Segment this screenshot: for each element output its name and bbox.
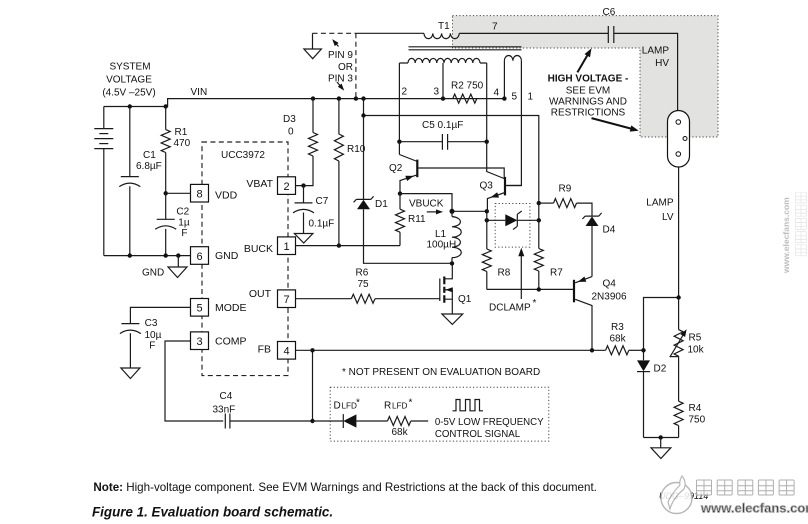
svg-text:Note: High-voltage component.: Note: High-voltage component. See EVM Wa… bbox=[93, 481, 597, 494]
diode D2 bbox=[637, 350, 667, 437]
pin 5 MODE bbox=[191, 299, 247, 317]
svg-text:4: 4 bbox=[283, 346, 289, 358]
svg-text:3: 3 bbox=[434, 87, 440, 98]
svg-text:R1: R1 bbox=[175, 127, 188, 138]
capacitor C3 bbox=[120, 318, 162, 368]
svg-text:HIGH VOLTAGE -: HIGH VOLTAGE - bbox=[548, 74, 629, 85]
svg-text:*: * bbox=[533, 298, 537, 309]
svg-text:Q4: Q4 bbox=[603, 278, 617, 289]
transformer T1 secondary winding (2-3-4) bbox=[399, 58, 486, 63]
svg-text:C6: C6 bbox=[603, 7, 616, 18]
watermark logo (bottom right) bbox=[646, 468, 808, 524]
pin 8 VDD bbox=[191, 184, 238, 202]
svg-text:1µ: 1µ bbox=[178, 217, 190, 228]
svg-text:R9: R9 bbox=[559, 184, 572, 195]
svg-text:LFD: LFD bbox=[392, 402, 408, 411]
wire: VIN branch to R9/R7 column bbox=[361, 113, 541, 248]
node VIN label bbox=[191, 87, 208, 98]
svg-text:WARNINGS AND: WARNINGS AND bbox=[549, 97, 627, 108]
transistor Q4 (PNP 2N3906) bbox=[574, 277, 627, 351]
resistor R6 bbox=[296, 268, 440, 304]
low-frequency dimming dotted box bbox=[330, 387, 549, 441]
svg-text:7: 7 bbox=[283, 294, 289, 306]
wire: Q2 base to Q3 bbox=[418, 168, 504, 178]
svg-text:D4: D4 bbox=[603, 225, 616, 236]
wire: C6 to lamp HV bbox=[614, 33, 678, 110]
wire: tap 4 column bbox=[487, 63, 500, 142]
capacitor C2 bbox=[155, 191, 190, 256]
label LAMP HV bbox=[642, 46, 670, 70]
svg-text:L1: L1 bbox=[435, 229, 447, 240]
resistor R4 bbox=[674, 356, 706, 437]
arrow to line 7 bbox=[577, 48, 591, 72]
svg-text:D3: D3 bbox=[283, 114, 296, 125]
wire: tap 3 to rail bbox=[434, 63, 444, 99]
capacitor C4 bbox=[213, 391, 236, 429]
svg-text:6: 6 bbox=[196, 251, 202, 263]
svg-text:470: 470 bbox=[174, 138, 191, 149]
pin 3 COMP bbox=[191, 332, 247, 350]
svg-text:D: D bbox=[334, 401, 341, 412]
arrow to lamp bbox=[592, 118, 639, 132]
transformer T1 primary winding bbox=[424, 21, 459, 39]
wire: bottom node bbox=[644, 435, 679, 439]
svg-text:VDD: VDD bbox=[215, 189, 238, 201]
capacitor C7 bbox=[293, 186, 334, 234]
wire: line 7 from primary to C6 bbox=[459, 22, 608, 34]
svg-text:D2: D2 bbox=[654, 364, 667, 375]
wire: tap 2 column bbox=[399, 63, 407, 142]
svg-text:PIN 3: PIN 3 bbox=[328, 74, 353, 85]
svg-text:T1: T1 bbox=[438, 21, 450, 32]
resistor R10 bbox=[334, 99, 365, 246]
capacitor C5 bbox=[397, 120, 489, 150]
pin 7 OUT bbox=[249, 288, 296, 307]
svg-text:Q1: Q1 bbox=[458, 294, 472, 305]
svg-text:CONTROL SIGNAL: CONTROL SIGNAL bbox=[435, 429, 521, 440]
svg-text:33nF: 33nF bbox=[213, 405, 236, 416]
transistor Q3 (NPN) bbox=[480, 142, 522, 212]
pin 1 BUCK bbox=[244, 237, 296, 255]
svg-text:OR: OR bbox=[338, 62, 353, 73]
svg-text:OUT: OUT bbox=[249, 288, 272, 300]
wire: Q2 emitter to VBUCK node bbox=[400, 194, 489, 214]
UDG number bbox=[659, 491, 708, 501]
diode DLFD bbox=[313, 398, 361, 429]
label: not present on evaluation board bbox=[342, 367, 540, 378]
wire: to transformer primary bbox=[356, 32, 424, 34]
transistor Q1 (NMOS) bbox=[440, 263, 472, 314]
ground (C7) bbox=[294, 234, 313, 244]
svg-text:68k: 68k bbox=[610, 334, 627, 345]
svg-text:0: 0 bbox=[288, 127, 294, 138]
resistor R5 (variable) bbox=[670, 298, 705, 358]
inductor L1 bbox=[427, 211, 462, 263]
svg-text:F: F bbox=[149, 341, 155, 352]
svg-text:C1: C1 bbox=[143, 150, 156, 161]
svg-text:R7: R7 bbox=[550, 268, 563, 279]
capacitor C6 bbox=[603, 7, 616, 43]
resistor D3 (0 ohm) bbox=[283, 99, 318, 156]
resistor R11 bbox=[396, 191, 427, 245]
wire pin8 to C2/R1 node bbox=[166, 192, 191, 194]
svg-text:R11: R11 bbox=[408, 214, 426, 225]
svg-text:1: 1 bbox=[283, 241, 289, 253]
transformer T1 aux winding (5-1) bbox=[504, 55, 521, 60]
wire: winding 1 end down to Q3 collector bbox=[507, 61, 534, 186]
svg-text:COMP: COMP bbox=[215, 335, 247, 347]
transformer T1 core bbox=[409, 47, 522, 50]
svg-text:D1: D1 bbox=[375, 199, 388, 210]
svg-text:10k: 10k bbox=[688, 344, 705, 355]
svg-text:C2: C2 bbox=[176, 207, 189, 218]
svg-text:R2 750: R2 750 bbox=[451, 81, 484, 92]
svg-text:0.1µF: 0.1µF bbox=[309, 219, 335, 230]
diode D4 (zener) bbox=[582, 213, 615, 277]
label DCLAMP with arrow bbox=[489, 248, 537, 314]
pin 2 VBAT bbox=[246, 177, 295, 195]
wire: lamp LV down bbox=[678, 167, 680, 298]
svg-text:750: 750 bbox=[689, 414, 706, 425]
diode DCLAMP (zener, optional) bbox=[485, 204, 539, 248]
svg-text:R: R bbox=[384, 401, 391, 412]
svg-text:2: 2 bbox=[283, 181, 289, 193]
control signal waveform bbox=[453, 400, 484, 411]
svg-text:VBAT: VBAT bbox=[246, 178, 273, 190]
svg-text:UCC3972: UCC3972 bbox=[221, 150, 265, 161]
resistor R3 bbox=[606, 322, 644, 355]
wire: MODE pin 5 to C3 bbox=[130, 307, 190, 323]
svg-text:MODE: MODE bbox=[215, 302, 247, 314]
svg-text:LAMP: LAMP bbox=[646, 198, 674, 209]
svg-text:100µH: 100µH bbox=[427, 240, 457, 251]
ground (Q1 source) bbox=[442, 314, 463, 324]
resistor R7 bbox=[534, 249, 563, 290]
svg-text:4: 4 bbox=[494, 88, 500, 99]
high-voltage shaded region bbox=[453, 16, 719, 137]
label: SYSTEM VOLTAGE (4.5V -25V) bbox=[102, 62, 155, 99]
svg-text:3: 3 bbox=[196, 336, 202, 348]
svg-text:R5: R5 bbox=[689, 333, 702, 344]
svg-text:VBUCK: VBUCK bbox=[409, 198, 444, 209]
svg-text:RESTRICTIONS: RESTRICTIONS bbox=[551, 108, 626, 119]
label HIGH VOLTAGE warning bbox=[548, 74, 629, 119]
svg-text:SYSTEM: SYSTEM bbox=[109, 62, 150, 73]
svg-text:Q3: Q3 bbox=[480, 180, 494, 191]
resistor R2 bbox=[451, 81, 484, 104]
svg-text:1: 1 bbox=[528, 92, 534, 103]
ground (bottom right) bbox=[651, 438, 671, 459]
resistor R9 bbox=[539, 184, 592, 217]
svg-text:7: 7 bbox=[492, 22, 498, 33]
svg-text:2: 2 bbox=[402, 87, 408, 98]
svg-text:75: 75 bbox=[358, 279, 370, 290]
pin 4 FB bbox=[258, 342, 296, 360]
transistor Q2 (PNP) bbox=[389, 142, 417, 194]
svg-text:UDG–99114: UDG–99114 bbox=[659, 491, 708, 501]
wire: winding 5 end to rail bbox=[504, 61, 517, 103]
svg-text:GND: GND bbox=[142, 267, 164, 278]
battery (system voltage source) bbox=[94, 107, 113, 256]
pin 6 GND bbox=[191, 247, 239, 265]
svg-text:68k: 68k bbox=[392, 427, 409, 438]
svg-text:10µ: 10µ bbox=[145, 330, 162, 341]
svg-text:8: 8 bbox=[196, 189, 202, 201]
wire: BUCK pin 1 to R10/R11 bbox=[296, 243, 401, 247]
svg-text:2N3906: 2N3906 bbox=[592, 291, 627, 302]
svg-text:5: 5 bbox=[512, 92, 518, 103]
svg-text:Figure 1. Evaluation board sch: Figure 1. Evaluation board schematic. bbox=[92, 505, 333, 520]
figure caption bbox=[92, 505, 333, 520]
lamp (CCFL tube) bbox=[668, 111, 690, 168]
wire: dashed pin9/pin3 option net bbox=[313, 33, 356, 98]
label LAMP LV bbox=[646, 198, 674, 224]
svg-text:* NOT PRESENT ON EVALUATION BO: * NOT PRESENT ON EVALUATION BOARD bbox=[342, 367, 540, 378]
ground (pin9 option) bbox=[304, 49, 322, 59]
wire: ground rail (left) bbox=[104, 253, 191, 257]
label PIN 9 OR PIN 3 with arrows bbox=[328, 39, 353, 91]
svg-text:FB: FB bbox=[258, 343, 271, 355]
svg-text:LV: LV bbox=[662, 212, 674, 223]
svg-text:GND: GND bbox=[215, 250, 239, 262]
wire: C4 to FB node bbox=[230, 348, 315, 423]
svg-text:C3: C3 bbox=[145, 318, 158, 329]
svg-text:HV: HV bbox=[655, 58, 669, 69]
resistor R1 bbox=[161, 107, 190, 194]
svg-text:5: 5 bbox=[196, 303, 202, 315]
resistor R8 bbox=[482, 211, 510, 289]
svg-text:DCLAMP: DCLAMP bbox=[489, 303, 531, 314]
svg-text:R3: R3 bbox=[611, 322, 624, 333]
wire: VBAT pin 2 to D3 column bbox=[296, 156, 314, 188]
wire: VIN rail bbox=[104, 96, 507, 108]
resistor RLFD bbox=[356, 398, 428, 439]
svg-text:R6: R6 bbox=[356, 268, 369, 279]
wire: COMP pin 3 to C4 bbox=[165, 341, 223, 421]
svg-text:VIN: VIN bbox=[191, 87, 208, 98]
diode D1 (zener) bbox=[354, 99, 452, 264]
ground GND (left) bbox=[142, 256, 187, 279]
svg-text:SEE EVM: SEE EVM bbox=[566, 86, 610, 97]
capacitor C1 bbox=[119, 107, 161, 256]
note text bbox=[93, 481, 597, 494]
svg-text:PIN 9: PIN 9 bbox=[328, 50, 353, 61]
svg-text:BUCK: BUCK bbox=[244, 243, 273, 255]
svg-text:(4.5V –25V): (4.5V –25V) bbox=[102, 88, 155, 99]
svg-text:C5 0.1µF: C5 0.1µF bbox=[422, 120, 463, 131]
svg-text:Q2: Q2 bbox=[389, 163, 403, 174]
svg-text:LAMP: LAMP bbox=[642, 46, 670, 57]
svg-text:6.8µF: 6.8µF bbox=[136, 161, 162, 172]
svg-text:LFD: LFD bbox=[342, 402, 358, 411]
op-amp U1 UCC3972 dashed outline bbox=[202, 142, 288, 376]
svg-text:0-5V LOW FREQUENCY: 0-5V LOW FREQUENCY bbox=[435, 417, 544, 428]
wire: lamp column to divider bbox=[641, 295, 681, 352]
svg-text:R8: R8 bbox=[498, 268, 511, 279]
ground (C3) bbox=[121, 368, 140, 379]
svg-text:F: F bbox=[181, 228, 187, 239]
svg-text:*: * bbox=[356, 398, 360, 409]
svg-text:VOLTAGE: VOLTAGE bbox=[106, 75, 152, 86]
watermark right edge bbox=[782, 192, 808, 277]
wire: Q4 base from R8/R7 bbox=[487, 287, 573, 291]
svg-text:C7: C7 bbox=[316, 196, 329, 207]
wire: FB pin 4 to R3/D2 bbox=[296, 348, 606, 352]
label: 0-5V low frequency control signal bbox=[435, 417, 544, 440]
node VBUCK label + arrow bbox=[409, 198, 444, 214]
svg-text:R4: R4 bbox=[689, 403, 702, 414]
svg-text:*: * bbox=[409, 398, 413, 409]
svg-text:C4: C4 bbox=[220, 391, 233, 402]
